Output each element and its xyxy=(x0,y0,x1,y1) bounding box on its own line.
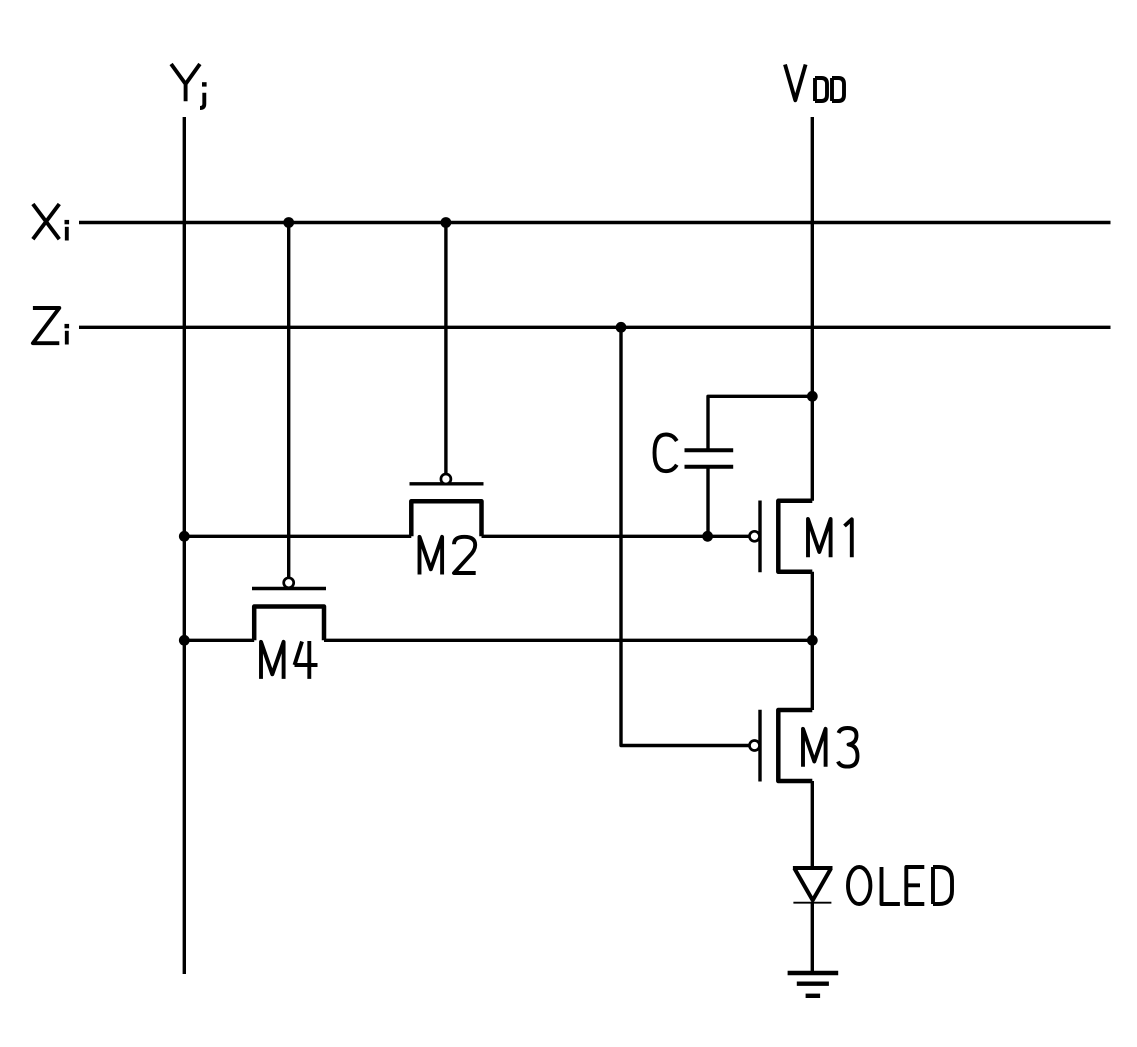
transistor M3 gate bar xyxy=(758,710,761,782)
transistor M4 channel staple xyxy=(254,607,324,641)
wire capacitor bottom lead to M1 gate row xyxy=(706,467,709,537)
node VDD/capacitor-top junction xyxy=(807,391,818,402)
label M1 xyxy=(808,519,852,557)
transistor M2 gate bar xyxy=(410,482,484,485)
node Yj/M1-gate-row junction xyxy=(179,531,190,542)
wire M4 row: Yj to M4 left source xyxy=(184,639,254,642)
wire OLED cathode to ground xyxy=(811,903,814,972)
wire Zi branch down and right to M3 gate xyxy=(621,327,749,745)
node Zi branch junction xyxy=(616,322,627,333)
wire M1 gate row: Yj to M2 left source xyxy=(184,535,411,538)
transistor M1 gate bar xyxy=(758,501,761,573)
transistor M4 gate bubble xyxy=(284,578,294,588)
transistor M1 channel staple (drain jog, channel bar, source jog) xyxy=(778,501,812,572)
transistor M3 gate bubble xyxy=(750,741,760,751)
label Yj xyxy=(171,64,207,108)
wire Xi horizontal scan line xyxy=(79,221,1111,224)
label OLED xyxy=(848,867,952,904)
label Xi xyxy=(33,204,69,241)
wire M3 source to OLED anode xyxy=(811,781,814,867)
wire Zi horizontal control line xyxy=(79,326,1111,329)
wire M1 source to M3 drain xyxy=(811,572,814,710)
diode OLED anode bar xyxy=(793,866,833,870)
label Zi xyxy=(33,308,69,345)
label M3 xyxy=(803,728,858,767)
ground symbol xyxy=(788,973,839,996)
wire M2 gate lead from Xi xyxy=(444,223,447,475)
capacitor C top plate xyxy=(685,448,734,452)
transistor M2 channel staple xyxy=(411,501,481,536)
node M4-row/M1-source junction xyxy=(807,635,818,646)
label C (capacitor) xyxy=(655,435,677,472)
transistor M3 channel staple xyxy=(778,710,812,781)
transistor M4 gate bar xyxy=(252,587,326,590)
transistor M2 gate bubble xyxy=(441,474,451,484)
label VDD xyxy=(785,65,844,102)
diode OLED cathode bar xyxy=(793,902,831,904)
label M4 xyxy=(261,641,318,679)
wire Yj vertical data line xyxy=(183,117,186,974)
wire M2 right drain to M1 gate bubble xyxy=(482,535,750,538)
wire VDD vertical supply drop to M1 drain xyxy=(811,117,814,501)
node Xi/M2-gate junction xyxy=(441,217,452,228)
capacitor C bottom plate xyxy=(685,465,734,469)
wire M4 right drain to M1/M3 node xyxy=(324,639,812,642)
wire capacitor top lead to VDD node xyxy=(708,396,812,450)
transistor M1 gate bubble xyxy=(750,531,760,541)
diode OLED triangle xyxy=(794,868,831,900)
wire M4 gate lead from Xi xyxy=(287,223,290,578)
node Xi/M4-gate junction xyxy=(283,217,294,228)
label M2 xyxy=(420,537,476,575)
node Yj/M4-row junction xyxy=(179,635,190,646)
node capacitor-bottom/M1-gate junction xyxy=(702,531,713,542)
